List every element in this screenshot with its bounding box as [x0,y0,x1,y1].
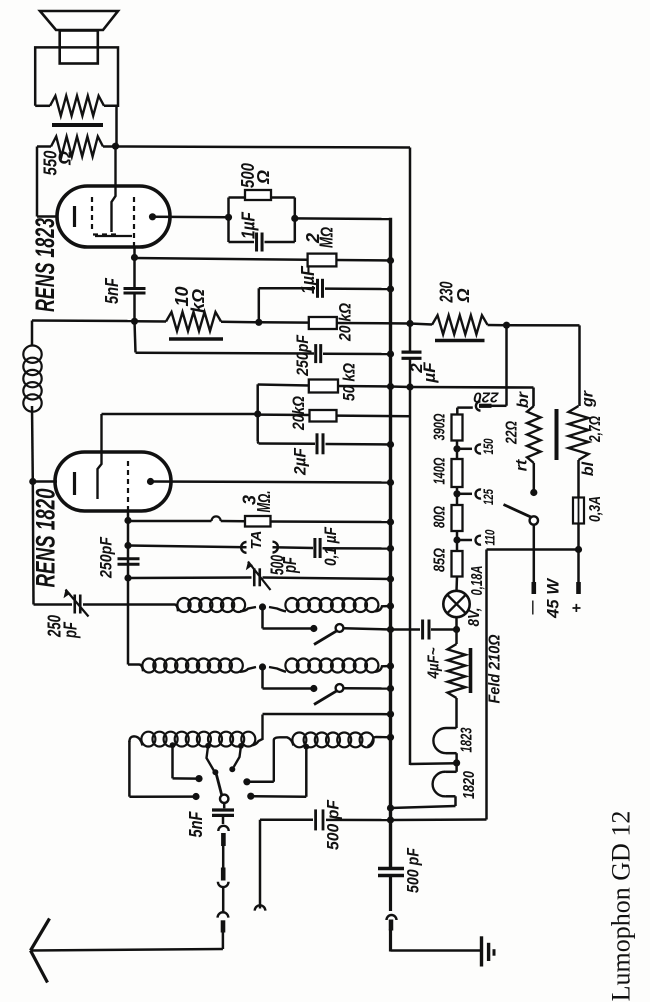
capacitor 0,1µF [273,546,314,549]
mains switch [533,463,536,493]
svg-text:1820: 1820 [461,771,478,799]
capacitor 2µF (anode to bus) [256,442,259,444]
antenna selector switch [220,795,228,803]
mains plug bar 220 [479,404,492,408]
variable capacitor 500pF (TA coupling) [128,576,252,579]
wire 550Ω left to cathode RENS1823 [37,145,51,148]
svg-text:500 pF: 500 pF [404,847,423,893]
tube RENS 1823 envelope [57,186,170,247]
node 5nF/10kΩ [131,318,138,325]
node grid RENS1823 [131,254,138,261]
node grid RENS1820 [127,511,130,521]
bus connector plug bar [389,920,394,931]
capacitor 250pF (grid) [127,521,130,546]
svg-text:1823: 1823 [459,727,476,752]
winding 2,7Ω (gr/bl) [569,406,589,460]
node left RC [225,214,232,221]
variable capacitor 250pF (antenna) [34,603,73,606]
pickup jacks TA [128,546,247,548]
wire 1µF line [259,287,315,290]
fuse 0,3A [577,460,580,498]
tube RENS 1820 anode dot and wire to bus [147,478,154,485]
svg-text:80Ω: 80Ω [432,506,449,528]
svg-text:pF: pF [61,621,81,638]
svg-text:pF: pF [280,556,300,573]
wire heater return to bus [391,806,456,808]
node junction 550Ω / plate line [103,145,116,148]
wire grid line [135,258,308,260]
tube RENS 1823 grid 2 (dashed) to junction [133,197,135,246]
loudspeaker magnet/cone body [60,31,98,64]
node below lamp [455,617,458,629]
antenna lead and arrow [31,949,223,951]
tap3 to selector contact B [234,747,241,767]
wire 50kΩ branch [256,384,259,441]
wire mains to chassis line [487,548,579,551]
resistor 390Ω [452,415,463,441]
svg-text:20kΩ: 20kΩ [289,396,308,431]
svg-text:—: — [524,601,540,615]
resistor 10kΩ with core bar [166,312,221,331]
svg-text:Feld 210Ω: Feld 210Ω [487,634,504,703]
wire coil3 to bus [263,713,391,716]
coil L1b [269,607,286,611]
coil L2a [128,663,139,666]
wire to ground [391,949,482,951]
svg-text:Lumophon GD 12: Lumophon GD 12 [607,811,636,1002]
antenna plug connector 2 [221,868,226,881]
resistor 140Ω [452,459,463,487]
main bus line [389,218,392,867]
svg-text:Ω: Ω [55,151,75,166]
heater 1823 loop [446,727,457,730]
capacitor 5nF (antenna) [223,803,226,808]
svg-text:MΩ.: MΩ. [254,491,274,513]
transformer core bar (speaker) [52,123,103,127]
svg-text:bl: bl [580,461,597,476]
node cathode RENS1820 [29,478,36,485]
wire 50kΩ line to 22Ω winding [410,386,534,389]
wire to heater winding 2.7Ω [507,324,580,327]
svg-text:kΩ: kΩ [188,289,208,313]
svg-text:RENS 1820: RENS 1820 [31,489,61,588]
node tap 125 [456,487,459,505]
svg-text:1µF: 1µF [239,211,259,239]
resistor 2MΩ [308,254,337,267]
svg-text:140Ω: 140Ω [432,457,449,484]
tube RENS 1820 anode element [98,414,102,499]
svg-text:22Ω: 22Ω [504,421,521,445]
wire antenna chain [222,846,225,868]
svg-text:500 pF: 500 pF [324,799,343,850]
svg-text:50 kΩ: 50 kΩ [340,363,359,401]
antenna plug connector 3 [218,912,229,917]
svg-text:85Ω: 85Ω [432,548,449,572]
capacitor 5nF (anode blocking) [133,258,136,288]
svg-text:0,1 µF: 0,1 µF [321,527,340,566]
winding 22Ω (rt/br) [527,406,541,463]
transformer core bar (mains) [555,409,559,460]
resistor 85Ω [452,551,463,577]
svg-text:2,7Ω: 2,7Ω [587,416,604,443]
svg-text:390Ω: 390Ω [432,413,449,440]
node 230Ω right [503,322,510,329]
svg-text:110: 110 [482,529,498,545]
svg-text:µF: µF [420,362,439,384]
wire 20kΩ to rail (crosses bus) [337,322,410,325]
coil L4 (antenna) [274,737,294,782]
wire speaker to output-transformer junction [115,106,118,146]
coil L3 taps [170,742,176,748]
node tap 150 [456,441,459,460]
svg-text:0,3A: 0,3A [587,496,604,522]
tube RENS 1823 screen/plate element [112,147,116,232]
resistor 230Ω with core bar [410,324,432,325]
capacitor 500pF (bus to antenna connector) [378,867,404,871]
capacitor 2µF (in rail) [402,351,422,354]
wire to dial lamp [455,577,458,592]
svg-text:250pF: 250pF [293,334,312,376]
band switch 2 [261,667,264,689]
ground symbol [480,936,483,966]
earth socket branch [259,820,262,909]
tube RENS 1820 grid (dashed) [127,461,129,511]
svg-text:0,18A: 0,18A [469,566,486,596]
resistor 20kΩ (anode load) [258,413,310,416]
node coil pair 1 [240,607,256,611]
coil L3 (antenna) [129,736,142,745]
svg-text:2µF: 2µF [291,447,310,475]
wire B+ top line [116,147,411,148]
svg-text:45 W: 45 W [544,577,563,619]
resistor 3MΩ (grid leak) [128,520,212,523]
svg-text:br: br [515,391,532,408]
capacitor 4µF~ [391,628,421,631]
node right RC [291,215,298,222]
svg-text:MΩ: MΩ [317,227,337,248]
band switch 1 [261,607,264,629]
node fuse bottom [577,524,580,550]
coil L2b [269,667,286,672]
wire switch to terminal minus [533,525,536,582]
resistor 550Ω [51,137,103,157]
resistor 50kΩ [309,380,338,393]
node heater junction / rail [453,759,460,766]
resistor 80Ω [452,505,463,531]
wire to terminal plus [577,550,580,583]
mains socket 220 [476,401,481,410]
svg-text:250pF: 250pF [97,536,116,578]
svg-text:gr: gr [580,390,597,408]
svg-text:8V,: 8V, [466,608,483,627]
node tap 110 [456,531,459,551]
tube RENS 1820 cathode bar [73,472,76,495]
field winding Feld 210Ω with core bar [455,630,458,645]
dial lamp 8V 0,18A [443,591,469,617]
capacitor 1µF (to bus) [316,279,319,298]
contact R1 to coil L4 [243,778,250,785]
node coil pair 2 [240,667,256,672]
antenna plug connector 1 [222,815,225,824]
loudspeaker frame with voice-coil winding [35,47,118,105]
tap1 to contact L1 [171,745,174,778]
svg-text:TA: TA [248,531,265,550]
svg-text:5nF: 5nF [102,277,122,304]
svg-text:150: 150 [480,438,496,454]
coil L3 left end to contact [128,741,131,797]
tap2 to selector contact A [207,747,214,771]
svg-text:125: 125 [480,489,496,505]
wire RC to bus corner [295,217,391,220]
tube RENS 1820 envelope [55,452,171,511]
svg-text:rt: rt [514,459,531,471]
svg-text:5nF: 5nF [186,811,206,838]
heater 1820 loop [455,763,458,772]
wire socket to 390Ω chain [457,406,473,409]
svg-text:RENS 1823: RENS 1823 [30,218,60,312]
wire 20kΩ to rail junction [337,414,412,417]
resistor 500Ω [245,190,271,200]
svg-text:4µF~: 4µF~ [426,647,443,679]
tube RENS 1823 cathode bar [73,206,76,227]
wire down to 20kΩ line [258,288,261,322]
loudspeaker horn [40,11,118,30]
capacitor 1µF (parallel with 500Ω) [229,196,246,199]
capacitor 500pF (chassis line) [260,818,313,821]
svg-text:+: + [569,603,586,612]
rail from B+ line down [409,148,412,353]
coil L1a [175,605,179,612]
svg-text:Ω: Ω [253,170,273,185]
capacitor 250pF (to bus) [135,322,136,353]
coil L4 tap to contact R2 [303,744,309,750]
resistor 20kΩ [309,317,337,329]
tube RENS 1823 anode dot and output wire [149,213,156,220]
svg-text:1µF: 1µF [298,265,318,294]
svg-text:220: 220 [473,389,500,406]
tube RENS 1823 grid 1 (dashed) [91,197,93,233]
bus connector socket [387,915,397,920]
wire 220 tap vertical [505,325,508,406]
wire anode RENS1820 to 20kΩ/50kΩ node [102,413,258,416]
wire left choke top corner [32,319,135,322]
choke coil (left, vertical) [31,321,34,346]
svg-text:Ω: Ω [453,288,473,303]
